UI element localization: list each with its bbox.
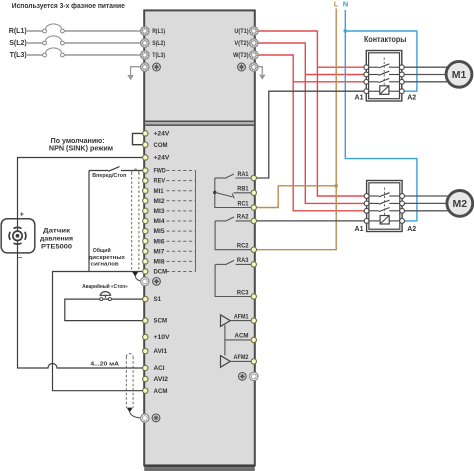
svg-text:RC1: RC1 [238, 200, 249, 207]
svg-text:По умолчанию:: По умолчанию: [51, 138, 105, 145]
svg-text:сигналов: сигналов [91, 261, 120, 267]
svg-text:R(L1): R(L1) [9, 28, 27, 35]
svg-text:PTE5000: PTE5000 [41, 244, 72, 251]
svg-text:MI7: MI7 [154, 248, 165, 255]
svg-text:MI1: MI1 [154, 188, 165, 195]
svg-text:N: N [343, 0, 348, 8]
svg-text:−: − [18, 255, 22, 262]
svg-text:MI4: MI4 [154, 218, 166, 225]
svg-text:MI3: MI3 [154, 208, 166, 215]
svg-text:A2: A2 [407, 95, 416, 102]
svg-text:AFM1: AFM1 [234, 313, 249, 320]
svg-text:V(T2): V(T2) [234, 40, 248, 47]
svg-text:U(T1): U(T1) [234, 28, 248, 35]
svg-text:SCM: SCM [154, 318, 168, 325]
svg-text:AVI1: AVI1 [154, 348, 168, 355]
svg-text:DCM: DCM [154, 269, 168, 276]
svg-text:FWD: FWD [154, 168, 167, 175]
svg-text:ACM: ACM [154, 388, 168, 395]
svg-text:MI6: MI6 [154, 238, 166, 245]
svg-text:RC2: RC2 [237, 243, 249, 250]
svg-text:давления: давления [40, 236, 73, 243]
svg-text:MI8: MI8 [154, 259, 166, 266]
svg-text:A1: A1 [355, 226, 364, 233]
svg-text:+24V: +24V [154, 131, 171, 138]
svg-text:RA3: RA3 [237, 257, 249, 264]
svg-text:RA1: RA1 [238, 171, 249, 178]
svg-text:Используется 3-х фазное питани: Используется 3-х фазное питание [12, 3, 125, 10]
svg-text:REV: REV [154, 178, 166, 185]
svg-text:MI5: MI5 [154, 228, 166, 235]
svg-text:дискретных: дискретных [88, 255, 126, 261]
svg-text:M2: M2 [453, 198, 468, 210]
svg-text:ACM: ACM [235, 333, 249, 340]
svg-text:Общий: Общий [93, 247, 112, 254]
svg-text:S(L2): S(L2) [152, 40, 165, 47]
svg-text:Аварийный «Стоп»: Аварийный «Стоп» [82, 283, 128, 290]
svg-text:4...20 мА: 4...20 мА [90, 362, 120, 368]
svg-text:M1: M1 [452, 69, 467, 81]
svg-text:AVI2: AVI2 [154, 376, 169, 383]
svg-text:RB1: RB1 [237, 186, 249, 193]
svg-text:AFM2: AFM2 [234, 354, 249, 361]
svg-text:Датчик: Датчик [43, 228, 71, 235]
svg-text:S(L2): S(L2) [9, 40, 27, 47]
svg-text:S1: S1 [154, 296, 162, 303]
svg-text:A2: A2 [407, 226, 416, 233]
svg-text:T(L3): T(L3) [152, 52, 165, 59]
svg-text:T(L3): T(L3) [10, 52, 27, 59]
svg-text:ACI: ACI [154, 365, 165, 372]
svg-text:R(L1): R(L1) [152, 28, 165, 35]
svg-text:L: L [334, 0, 339, 8]
svg-text:COM: COM [154, 142, 168, 149]
svg-text:Вперед/Стоп: Вперед/Стоп [92, 173, 126, 179]
svg-text:+: + [20, 212, 24, 219]
svg-text:+24V: +24V [154, 155, 171, 162]
svg-text:W(T3): W(T3) [233, 52, 249, 59]
svg-text:A1: A1 [355, 95, 364, 102]
svg-text:NPN (SINK) режим: NPN (SINK) режим [49, 146, 113, 153]
svg-text:+10V: +10V [154, 334, 171, 341]
svg-text:RA2: RA2 [237, 214, 249, 221]
svg-text:Контакторы: Контакторы [364, 35, 407, 44]
svg-text:RC3: RC3 [237, 289, 249, 296]
svg-text:MI2: MI2 [154, 198, 166, 205]
